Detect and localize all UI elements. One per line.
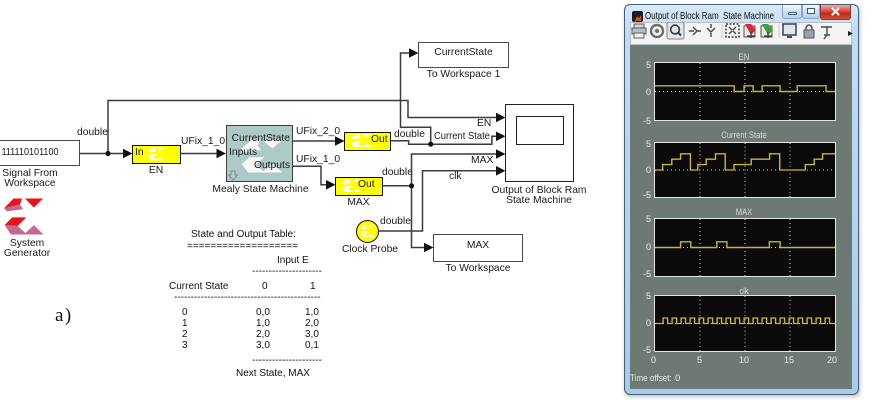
arrowhead into In <box>123 149 133 159</box>
arrowhead into Out1 <box>335 136 345 146</box>
expand icon <box>726 24 739 37</box>
label Mealy State Machine <box>209 185 312 195</box>
toolbar <box>630 22 852 45</box>
printer icon <box>632 24 646 38</box>
wire clock probe to scope clk <box>379 171 499 231</box>
signal label double (Out2 output) <box>382 168 413 178</box>
signal label double (SFW output) <box>77 128 108 138</box>
To Workspace 1 block CurrentState <box>418 42 509 68</box>
label Signal From Workspace <box>0 169 80 189</box>
gear icon <box>651 25 663 37</box>
block: Signal From Workspace 111110101100 <box>0 140 80 166</box>
signal label double (Out1 output) <box>394 130 425 140</box>
Scope block: Output of Block Ram State Machine <box>505 104 574 182</box>
toolbar icons svg <box>629 22 855 42</box>
arrowhead scope EN <box>496 113 506 123</box>
label System Generator <box>0 239 77 259</box>
label a) <box>55 305 73 327</box>
lock icon <box>804 25 814 38</box>
wires overlay <box>0 0 620 400</box>
junction node at Out2 double <box>409 183 414 188</box>
window buttons <box>782 5 802 19</box>
white xilinx logo in In gateway <box>148 147 164 160</box>
arrowhead into MAX workspace <box>424 243 434 253</box>
title bar icon <box>632 11 643 22</box>
arrowhead scope Current State <box>496 132 506 142</box>
probe tool icon <box>821 27 832 39</box>
Clock Probe <box>356 220 379 243</box>
signal label UFix_1_0 (Outputs out) <box>296 155 340 165</box>
gateway In block <box>132 145 181 165</box>
green params icon <box>761 24 773 38</box>
zoom button pressed <box>667 22 684 39</box>
arrowhead into CurrentState workspace <box>409 48 419 58</box>
plot 3 MAX <box>668 207 821 217</box>
arrowhead scope MAX <box>496 149 506 159</box>
arrowhead into Mealy <box>217 149 227 159</box>
gray down-arrow on Mealy block <box>229 171 238 180</box>
signal label UFix_1_0 (In to Mealy) <box>181 137 225 147</box>
white xilinx logo in clock probe <box>361 225 374 237</box>
scope input label EN <box>477 119 491 129</box>
red top-right triangle <box>25 198 43 207</box>
wire junction up EN to scope <box>108 101 498 154</box>
scope input label Current State <box>434 132 490 142</box>
wire Out1 to scope Current State <box>391 136 498 144</box>
cursor icon 1 <box>689 27 701 35</box>
gateway Out1 block <box>344 132 391 152</box>
x axis labels <box>651 355 656 365</box>
wire junction down to MAX workspace <box>412 186 427 248</box>
System Generator Xilinx logo <box>4 198 44 236</box>
monitor icon <box>783 24 796 38</box>
separator <box>778 24 780 38</box>
title text <box>645 10 774 22</box>
wire junction up to scope MAX <box>412 154 499 186</box>
tiny corner arrow <box>848 31 853 36</box>
plot 2 Current State <box>668 130 821 140</box>
white xilinx logo on Mealy block <box>241 140 283 173</box>
arrowhead into Out2 <box>326 180 336 190</box>
junction node at SFW <box>105 151 110 156</box>
red params icon <box>744 24 756 38</box>
gateway Out2 block (MAX) <box>335 177 383 197</box>
label EN <box>132 166 181 176</box>
plot 1 EN <box>668 52 821 62</box>
wire Mealy CurrentState to Out1 <box>293 140 339 142</box>
separator <box>721 24 723 38</box>
time offset <box>630 373 672 384</box>
content area <box>630 45 852 389</box>
Mealy State Machine block <box>226 125 293 182</box>
junction node at Out1 double <box>428 142 433 147</box>
wire In to Mealy <box>181 153 221 155</box>
cursor icon 2 <box>707 24 715 37</box>
wire junction to CurrentState workspace <box>401 53 431 144</box>
signal label UFix_2_0 (CurrentState out) <box>296 127 340 137</box>
table: State and Output Table <box>0 0 1 1</box>
wire Mealy Outputs to Out2 <box>293 166 330 185</box>
scope input label MAX <box>471 156 493 166</box>
plot 4 clk <box>668 286 821 296</box>
To Workspace block MAX <box>433 234 523 262</box>
scope input label clk <box>449 172 462 182</box>
white xilinx logo in Out2 gateway <box>341 179 362 192</box>
mauve bottom band with notch and right triangle <box>4 225 43 235</box>
wire Out2 to junction <box>383 185 412 187</box>
wire SFW to In <box>79 153 126 155</box>
mauve top-left lower arm <box>4 204 23 211</box>
arrowhead scope clk <box>496 166 506 176</box>
signal label double (clock probe output) <box>380 217 411 227</box>
red bottom-left chevron arm <box>4 217 26 226</box>
label MAX <box>335 198 383 208</box>
red top-left chevron arm <box>4 198 22 208</box>
white xilinx logo in Out1 gateway <box>351 134 372 147</box>
